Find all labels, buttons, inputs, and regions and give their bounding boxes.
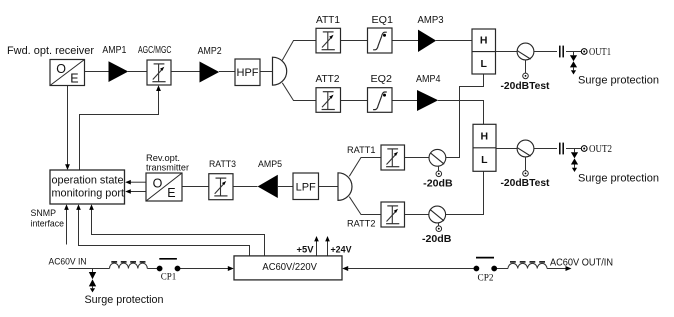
port OUT2 — [581, 146, 587, 152]
equalizer EQ1 — [368, 28, 393, 53]
svg-text:E: E — [167, 186, 175, 200]
svg-text:AMP3: AMP3 — [418, 15, 444, 26]
surge arrester OUT2 — [574, 149, 576, 153]
wire coupler to RATT2 — [405, 214, 430, 216]
wire SNMP interface stub — [66, 210, 68, 245]
wire EQ1 to AMP3 — [392, 40, 418, 42]
svg-text:ATT2: ATT2 — [316, 74, 340, 85]
wire Rev O/E to monitoring port upper — [130, 181, 146, 183]
wire RATT1 to combiner — [349, 158, 381, 177]
svg-text:-20dB: -20dB — [422, 234, 451, 245]
svg-text:monitoring port: monitoring port — [52, 187, 125, 199]
combiner SP2 — [338, 173, 352, 201]
svg-text:AMP5: AMP5 — [258, 159, 282, 170]
svg-text:LPF: LPF — [296, 181, 316, 193]
wire capacitor C1 to OUT1 port — [566, 51, 582, 53]
filter HPF — [235, 59, 260, 86]
wire splitter to ATT2 — [282, 83, 316, 101]
port OUT1 — [581, 49, 587, 55]
svg-text:Surge protection: Surge protection — [85, 294, 164, 306]
filter LPF — [293, 173, 319, 200]
svg-text:CP1: CP1 — [161, 272, 177, 282]
svg-text:AC60V IN: AC60V IN — [49, 256, 87, 266]
svg-text:OUT2: OUT2 — [589, 143, 612, 155]
wire monitoring port to power supply line 2 — [92, 210, 265, 256]
coupler -20dB 1 — [429, 149, 446, 166]
svg-text:HPF: HPF — [237, 67, 259, 79]
diplexer U4 H/L — [472, 29, 496, 74]
svg-text:AMP4: AMP4 — [416, 74, 441, 85]
svg-text:AC60V/220V: AC60V/220V — [262, 262, 317, 273]
wire splitter to ATT1 — [282, 41, 316, 61]
svg-text:O: O — [153, 176, 163, 190]
attenuator ATT2 — [316, 88, 341, 113]
power supply box AC60V/220V — [234, 256, 342, 280]
wire coupler to capacitor C1 — [534, 51, 557, 53]
wire coupler to RATT1 — [405, 157, 430, 159]
svg-text:AC60V OUT/IN: AC60V OUT/IN — [550, 258, 613, 269]
breaker CP2 — [474, 266, 480, 272]
wire combiner to LPF — [319, 186, 339, 188]
wire power box to CP2 with arrow — [342, 266, 348, 271]
svg-text:-20dBTest: -20dBTest — [501, 81, 551, 92]
wire ATT1 to EQ1 — [341, 40, 368, 42]
AGC/MGC variable attenuator U2 — [147, 60, 171, 85]
wire LPF to AMP5 — [278, 186, 293, 188]
wire capacitor C2 to OUT2 port — [566, 148, 582, 150]
coupler -20dB test point 2 — [517, 140, 534, 157]
svg-text:Surge protection: Surge protection — [578, 75, 659, 87]
svg-text:RATT2: RATT2 — [347, 219, 376, 230]
svg-text:RATT3: RATT3 — [209, 159, 236, 170]
surge arrester AC input — [92, 269, 94, 273]
svg-text:-20dBTest: -20dBTest — [501, 178, 551, 189]
inductor group L1 — [110, 263, 148, 268]
svg-text:H: H — [480, 35, 488, 47]
svg-text:RATT1: RATT1 — [347, 145, 376, 156]
svg-text:transmitter: transmitter — [146, 163, 189, 173]
test point stub 2 — [525, 157, 527, 171]
wire ATT2 to EQ2 — [341, 100, 368, 102]
wire diplexer U4 output to coupler — [496, 51, 518, 53]
svg-text:AGC/MGC: AGC/MGC — [138, 45, 172, 56]
wire diplexer U4 L port down to RATT1 coupler — [446, 74, 484, 158]
inductor group L2 — [508, 263, 547, 268]
svg-text:EQ1: EQ1 — [372, 15, 394, 26]
capacitor C2 — [559, 143, 561, 155]
svg-text:E: E — [70, 72, 78, 86]
coupler -20dB test point 1 — [517, 43, 534, 60]
wire inductors to CP1 — [147, 268, 157, 270]
equalizer EQ2 — [368, 88, 393, 113]
wire RATT3 to Rev O/E transmitter — [182, 186, 209, 188]
wire coupler to capacitor C2 — [534, 148, 557, 150]
wire CP2 to output inductors — [497, 268, 508, 270]
operation state monitoring port box — [50, 170, 125, 204]
wire HPF to splitter — [260, 71, 273, 73]
svg-text:Fwd. opt. receiver: Fwd. opt. receiver — [7, 45, 94, 57]
wire AC60V IN line — [69, 268, 110, 270]
+5V supply arrow — [316, 241, 318, 256]
wire AMP3 to diplexer U4 H input — [436, 40, 472, 42]
attenuator RATT1 — [381, 145, 405, 170]
svg-text:SNMP: SNMP — [31, 208, 57, 218]
wire AMP1 to AGC/MGC — [128, 71, 147, 73]
svg-text:H: H — [481, 131, 489, 143]
surge arrester OUT1 — [573, 52, 575, 56]
svg-text:L: L — [481, 154, 488, 166]
Fwd. opt. receiver O/E converter U1 — [50, 60, 85, 86]
svg-text:+5V: +5V — [297, 245, 314, 255]
svg-text:ATT1: ATT1 — [316, 15, 340, 26]
wire O/E receiver to AMP1 — [85, 71, 110, 73]
wire Rev O/E to monitoring port lower — [130, 191, 146, 193]
svg-text:OUT1: OUT1 — [589, 46, 611, 58]
svg-text:CP2: CP2 — [478, 274, 494, 284]
wire RATT2 to combiner — [349, 197, 381, 215]
amplifier AMP3 — [418, 30, 436, 52]
test point stub 1 — [525, 60, 527, 73]
svg-text:+24V: +24V — [331, 245, 352, 255]
+24V supply arrow — [327, 241, 329, 256]
wire O/E receiver down to monitoring port — [67, 86, 69, 165]
diplexer U5 H/L — [473, 124, 496, 171]
svg-text:AMP1: AMP1 — [102, 45, 126, 56]
wire AGC/MGC to AMP2 — [171, 71, 200, 73]
attenuator RATT2 — [381, 202, 405, 227]
amplifier AMP2 — [200, 62, 220, 83]
attenuator RATT3 — [209, 174, 233, 200]
amplifier AMP4 — [417, 90, 438, 111]
amplifier AMP1 — [109, 61, 129, 82]
wire AMP5 to RATT3 — [233, 186, 258, 188]
svg-text:O: O — [56, 62, 66, 76]
wire monitoring port to AGC/MGC control — [80, 91, 159, 171]
svg-text:operation state: operation state — [52, 174, 124, 186]
wire inductors to AC60V OUT/IN arrow — [547, 268, 566, 270]
svg-text:-20dB: -20dB — [423, 179, 452, 190]
svg-text:AMP2: AMP2 — [198, 46, 222, 57]
test stub coupler 1 — [438, 166, 440, 171]
wire AMP2 to HPF — [219, 71, 235, 73]
amplifier AMP5 — [258, 175, 278, 198]
capacitor C1 — [559, 46, 561, 58]
svg-text:L: L — [480, 58, 487, 70]
Rev. opt. transmitter O/E converter U3 — [146, 173, 182, 201]
wire AMP4 to diplexer U5 top — [438, 101, 484, 125]
attenuator ATT1 — [316, 28, 341, 53]
svg-text:Surge protection: Surge protection — [578, 172, 659, 184]
wire diplexer U5 output to coupler — [496, 148, 517, 150]
wire diplexer U5 L port down to RATT2 coupler — [446, 171, 484, 214]
wire monitoring port to power supply line 1 — [79, 210, 250, 256]
splitter SP1 — [273, 57, 287, 85]
wire CP1 to power box with arrow — [180, 268, 229, 270]
breaker CP1 — [157, 266, 163, 272]
coupler -20dB 2 — [429, 206, 446, 223]
test stub coupler 2 — [438, 223, 440, 226]
svg-text:interface: interface — [31, 218, 65, 228]
svg-text:EQ2: EQ2 — [371, 74, 393, 85]
wire EQ2 to AMP4 — [392, 100, 417, 102]
